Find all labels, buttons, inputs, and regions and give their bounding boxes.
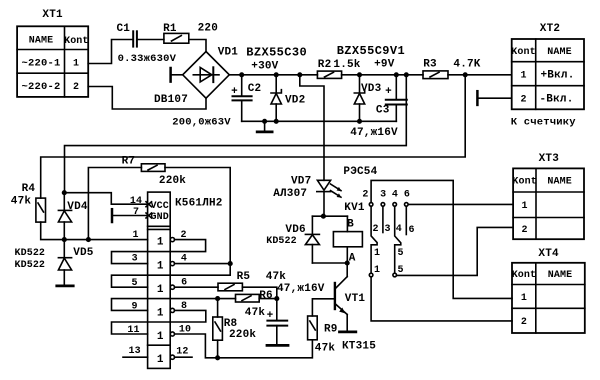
svg-text:XT2: XT2 (540, 23, 560, 35)
diode bridge VD1 DB107 (154, 47, 238, 129)
svg-text:4: 4 (392, 190, 398, 201)
junction C3 at +9V rail (394, 72, 399, 77)
svg-text:47k: 47k (266, 271, 287, 283)
svg-text:-Вкл.: -Вкл. (539, 93, 573, 105)
svg-text:R4: R4 (22, 183, 36, 195)
svg-text:220k: 220k (229, 329, 256, 341)
svg-text:~220-2: ~220-2 (21, 81, 60, 93)
svg-text:Kont: Kont (511, 47, 535, 58)
junction R8 bottom at rail (215, 355, 220, 360)
IC U1 K561LN2 body (130, 192, 223, 368)
svg-text:5: 5 (397, 265, 403, 276)
junction R8 top at in9 line (215, 296, 220, 301)
svg-text:47k: 47k (315, 343, 336, 355)
svg-text:7: 7 (133, 207, 139, 218)
zener diode VD2 BZX55C30 (271, 75, 305, 122)
svg-text:R5: R5 (237, 271, 251, 283)
wire out2 wrap to in3 (112, 240, 206, 264)
transistor VT1 KT315 (335, 263, 376, 353)
svg-text:1: 1 (133, 230, 139, 241)
svg-text:1: 1 (157, 237, 164, 249)
svg-text:1: 1 (157, 261, 164, 273)
capacitor C4 47,*16V electrolytic (267, 283, 325, 345)
junction VD3 at ground rail (357, 119, 362, 124)
junction LED feed at +30V rail (297, 72, 302, 77)
wire VD4 node to VCC pin14 (64, 193, 147, 205)
pin 4 inversion bubble (170, 262, 174, 266)
svg-text:3: 3 (380, 190, 386, 201)
terminal 1 to XT4 pin2 (371, 277, 512, 321)
terminal 5 to XT3 pin2 (397, 227, 514, 275)
svg-text:1: 1 (157, 354, 164, 366)
svg-text:3: 3 (384, 224, 390, 235)
resistor R9 47k (308, 316, 338, 355)
wire XT1 pin1 to C1 (88, 40, 133, 64)
wire R3 junction down to R4 (41, 75, 466, 198)
svg-text:220: 220 (198, 23, 218, 35)
svg-text:XT3: XT3 (539, 153, 560, 165)
svg-text:R1: R1 (163, 23, 177, 35)
svg-text:47,ж16V: 47,ж16V (350, 127, 398, 139)
ground below capacitor C4 (267, 344, 288, 347)
svg-text:1: 1 (522, 201, 528, 212)
capacitor C1 (116, 23, 176, 65)
svg-text:VD2: VD2 (285, 95, 305, 107)
capacitor C3 47,*16V (350, 75, 407, 139)
pin 12 inversion bubble (170, 355, 174, 359)
svg-text:13: 13 (128, 346, 140, 357)
svg-text:DB107: DB107 (154, 94, 188, 106)
svg-text:+Вкл.: +Вкл. (540, 70, 574, 82)
svg-text:VD4: VD4 (67, 201, 88, 213)
wire out6 to R5 (175, 286, 219, 288)
wire C1 to R1 (137, 39, 164, 41)
svg-text:GND: GND (151, 212, 169, 223)
svg-text:VD7: VD7 (291, 175, 311, 187)
junction R3 output node (463, 72, 468, 77)
svg-text:Kont: Kont (512, 177, 536, 188)
capacitor C2 200,0*63V (231, 75, 261, 122)
zener diode VD3 BZX55C9V1 (354, 75, 381, 122)
resistor R6 47k (236, 290, 273, 319)
node +9V rail wire (342, 74, 423, 76)
junction VD4-VD5 at input rail (62, 237, 67, 242)
junction R5 R6 C4 node (274, 296, 279, 301)
wire R9 top to VT1 base (312, 299, 334, 316)
svg-text:KV1: KV1 (344, 202, 365, 214)
wire in9 line from R6/R8 node (112, 299, 236, 311)
svg-text:4.7K: 4.7K (453, 59, 480, 71)
svg-text:VD1: VD1 (218, 47, 239, 59)
svg-text:C2: C2 (248, 83, 262, 95)
svg-text:1.5k: 1.5k (333, 59, 360, 71)
svg-text:14: 14 (130, 196, 142, 207)
resistor R1 220 (163, 23, 218, 44)
svg-text:Kont: Kont (512, 270, 536, 281)
junction VD4 cathode / VCC feed (62, 190, 67, 195)
svg-text:XT4: XT4 (538, 248, 559, 260)
junction C2 top at +30V rail (239, 72, 244, 77)
svg-text:+: + (231, 86, 238, 98)
svg-text:К счетчику: К счетчику (511, 117, 577, 129)
wire XT2 pin2 stub with terminal bar (477, 91, 511, 105)
node +30V rail wire (229, 74, 317, 76)
svg-text:1: 1 (157, 307, 164, 319)
junction out4 / R7 right (228, 261, 233, 266)
relay contact group KV1.1 (362, 180, 513, 321)
svg-text:4: 4 (396, 224, 402, 235)
diode VD4 KD522 (58, 193, 87, 240)
connector XT4 table (512, 248, 585, 333)
diode VD6 KD522 (266, 216, 319, 263)
svg-text:47k: 47k (245, 307, 266, 319)
wire out12 stub (175, 356, 193, 358)
resistor R8 220k (213, 299, 257, 358)
svg-text:220k: 220k (159, 175, 186, 187)
wire out4 to R7 junction (175, 263, 231, 265)
wire R4 bottom to input rail (41, 222, 148, 240)
svg-text:2: 2 (73, 82, 79, 93)
svg-text:КТ315: КТ315 (342, 341, 376, 353)
svg-text:BZX55C30: BZX55C30 (246, 46, 307, 60)
junction VD3 at +9V rail (357, 72, 362, 77)
relay coil KV1 RES54 (333, 166, 377, 263)
svg-text:R9: R9 (324, 323, 338, 335)
svg-text:R6: R6 (259, 290, 273, 302)
svg-text:0.33ж630V: 0.33ж630V (118, 53, 177, 65)
svg-text:C3: C3 (376, 105, 390, 117)
svg-text:VD3: VD3 (361, 83, 382, 95)
svg-text:~220-1: ~220-1 (21, 58, 60, 70)
svg-text:1: 1 (157, 331, 164, 343)
wire ground rail (242, 120, 397, 122)
connector XT1 table (17, 9, 88, 97)
wire out8 wrap to in11 (112, 310, 206, 334)
svg-text:VT1: VT1 (345, 293, 366, 305)
terminal bar GND pin7 (112, 209, 148, 222)
wire in13 stub (123, 356, 148, 358)
svg-text:KD522: KD522 (15, 260, 46, 271)
svg-text:VCC: VCC (151, 201, 169, 212)
junction VD2 at ground rail (274, 119, 279, 124)
svg-text:1: 1 (73, 59, 79, 70)
top feed wire to XT4 pin1 (371, 180, 512, 298)
pin 8 inversion bubble (170, 308, 174, 312)
svg-text:200,0ж63V: 200,0ж63V (172, 117, 231, 129)
svg-text:R2: R2 (318, 59, 332, 71)
resistor R5 47k (218, 271, 286, 291)
contact 6 stub and wire to XT3 pin1 (405, 206, 407, 234)
wire R7 right to out4/in5 (165, 168, 230, 276)
svg-text:2: 2 (522, 225, 528, 236)
pin 6 inversion bubble (170, 285, 174, 289)
wire bridge bottom to XT1 pin2 (88, 87, 206, 110)
svg-text:NAME: NAME (548, 270, 572, 281)
junction R7 left at input rail (86, 237, 91, 242)
svg-text:NAME: NAME (547, 47, 571, 58)
terminal circles (369, 203, 408, 277)
wire wrap in5 (112, 275, 231, 287)
svg-text:KD522: KD522 (15, 248, 46, 259)
svg-text:+: + (267, 310, 274, 322)
svg-text:Kont: Kont (64, 36, 88, 47)
junction ground stub at ground rail (262, 119, 267, 124)
svg-text:АЛ307: АЛ307 (273, 188, 307, 200)
wire R5 right to cap node (242, 287, 276, 320)
svg-text:1: 1 (157, 284, 164, 296)
svg-text:12: 12 (176, 347, 188, 358)
wire R3 to XT2 pin1 (448, 74, 512, 76)
svg-text:1: 1 (521, 293, 527, 304)
ground below VT1 emitter (340, 330, 356, 333)
resistor R4 47k (11, 183, 46, 222)
ground symbol (257, 121, 272, 132)
svg-text:1: 1 (374, 248, 380, 259)
svg-text:+30V: +30V (251, 60, 278, 72)
resistor R3 4.7K (423, 59, 481, 79)
svg-text:BZX55C9V1: BZX55C9V1 (337, 44, 405, 58)
svg-text:VD5: VD5 (73, 247, 94, 259)
diode VD5 KD522 (15, 240, 94, 286)
svg-text:5: 5 (397, 248, 403, 259)
svg-text:+: + (385, 86, 392, 98)
connector XT3 table (512, 153, 584, 239)
wire out10 to bottom rail (175, 334, 313, 358)
svg-text:+9V: +9V (374, 59, 395, 71)
svg-text:2: 2 (521, 317, 527, 328)
pin 14 x-mark (146, 202, 152, 207)
contact 3 stub (382, 206, 384, 232)
node B junction VD7 cathode (321, 214, 326, 219)
svg-text:47,ж16V: 47,ж16V (277, 283, 325, 295)
ground below VD5 (57, 284, 73, 287)
svg-text:R7: R7 (122, 156, 136, 168)
svg-text:РЭС54: РЭС54 (343, 166, 377, 178)
contact 2 lever to terminal 1 (371, 206, 377, 273)
svg-text:R3: R3 (423, 59, 437, 71)
svg-text:C1: C1 (116, 23, 130, 35)
LED VD7 AL307 (273, 175, 341, 216)
contact 4 lever to terminal 5 (395, 206, 401, 273)
svg-text:2: 2 (362, 190, 368, 201)
resistor R7 220k (88, 156, 186, 240)
pin 7 x-mark (146, 213, 152, 218)
wire +9V feed to VD4 node and VCC (65, 75, 407, 193)
contact labels (362, 190, 414, 277)
svg-text:NAME: NAME (29, 36, 53, 47)
wire R1 to bridge top (189, 40, 206, 52)
svg-text:KD522: KD522 (266, 236, 297, 247)
pin 2 inversion bubble (170, 238, 174, 242)
svg-text:1: 1 (520, 71, 526, 82)
junction VD2 at +30V rail (274, 72, 279, 77)
svg-text:NAME: NAME (547, 177, 571, 188)
junction +9V feed wire at rail (404, 72, 409, 77)
terminal bar at bridge AC left (171, 68, 183, 82)
wire LED feed from +30V (300, 75, 324, 181)
svg-text:К561ЛН2: К561ЛН2 (175, 198, 223, 210)
svg-text:47k: 47k (11, 195, 32, 207)
connector XT2 table (511, 23, 584, 129)
node B wire (312, 216, 354, 231)
node A wire (312, 253, 355, 265)
svg-text:2: 2 (520, 94, 526, 105)
resistor R2 1.5k (317, 59, 360, 78)
wire R6 to cap node (259, 298, 277, 300)
node A junction (345, 260, 350, 265)
svg-text:6: 6 (404, 190, 410, 201)
svg-text:XT1: XT1 (42, 9, 63, 21)
svg-text:VD6: VD6 (285, 224, 305, 236)
svg-text:6: 6 (408, 225, 414, 236)
pin 10 inversion bubble (170, 332, 174, 336)
svg-text:2: 2 (372, 224, 378, 235)
svg-text:1: 1 (374, 265, 380, 276)
